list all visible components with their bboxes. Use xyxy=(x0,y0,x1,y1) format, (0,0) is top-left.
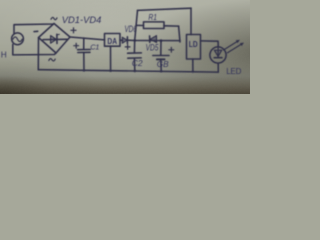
wire: top rail down to LD input xyxy=(190,8,192,34)
wire: DA ground lead to bottom rail xyxy=(110,46,112,70)
junction: GB tap (node B) xyxy=(160,39,163,42)
wire: AC source top to bridge top vertex xyxy=(14,24,54,34)
wire: node A to node B through VD5 xyxy=(135,40,180,42)
label + (GB polarity) xyxy=(169,47,174,52)
junction: node A (VD6 out / C2 / R1 / top rail) xyxy=(133,39,136,42)
wire: bridge minus output down to bottom rail xyxy=(37,38,39,70)
wire: LD output to LED anode xyxy=(201,41,219,47)
resistor R1 xyxy=(137,22,179,29)
LED xyxy=(210,40,244,63)
diode VD6 xyxy=(122,37,134,44)
svg-text:LD: LD xyxy=(189,40,198,49)
capacitor C1 xyxy=(78,38,91,70)
junction: LD / rail xyxy=(192,70,195,73)
LED driver LD (box) xyxy=(187,35,201,60)
wire: node A up to top rail xyxy=(135,10,138,40)
svg-text:R1: R1 xyxy=(148,12,157,22)
svg-text:GB: GB xyxy=(157,60,169,69)
diode VD5 xyxy=(150,36,157,43)
svg-text:VD1-VD4: VD1-VD4 xyxy=(62,15,102,26)
svg-text:VD5: VD5 xyxy=(146,43,160,53)
svg-text:H: H xyxy=(1,49,7,59)
junction: GB / rail xyxy=(160,70,163,73)
svg-text:C2: C2 xyxy=(132,58,143,68)
wire: R1 right lead down to node B xyxy=(179,26,180,42)
voltage regulator DA (box) xyxy=(105,34,121,47)
AC mark ~ (top bridge input) xyxy=(51,17,57,19)
AC mark ~ (bottom bridge input) xyxy=(49,59,55,61)
junction: C2 / rail xyxy=(133,70,136,73)
bridge rectifier VD1-VD4 (diamond) xyxy=(39,24,71,54)
wire: LED cathode down to rail xyxy=(217,63,219,72)
AC source xyxy=(12,33,24,45)
wire: bridge plus output to DA input xyxy=(70,37,105,40)
capacitor C2 xyxy=(128,41,142,71)
svg-text:LED: LED xyxy=(226,67,241,76)
minus output mark (bridge) xyxy=(34,30,38,32)
junction: C1 tap on plus rail xyxy=(83,37,85,39)
wire: bottom rail xyxy=(38,70,218,72)
wire: top rail xyxy=(138,8,192,10)
svg-text:C1: C1 xyxy=(90,42,99,51)
junction: C1 / rail xyxy=(83,69,86,72)
junction: DA ground / rail xyxy=(109,69,112,72)
plus output mark (bridge) xyxy=(71,28,76,33)
wire: AC source bottom to bridge bottom vertex xyxy=(13,44,56,55)
label + (C2 polarity) xyxy=(125,45,130,50)
wire: DA output to VD6 xyxy=(120,39,123,41)
diode inside bridge xyxy=(43,34,67,43)
battery GB xyxy=(153,41,169,71)
svg-text:DA: DA xyxy=(107,37,117,46)
wire: LD bottom to rail xyxy=(192,59,194,72)
label + (C1 polarity) xyxy=(74,43,79,48)
